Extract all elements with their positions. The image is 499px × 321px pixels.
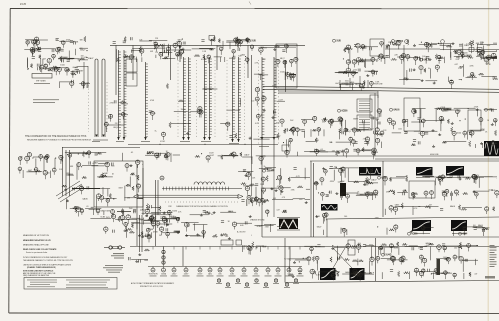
wire tuner-in-w15 xyxy=(68,51,70,61)
wire agc-w10 xyxy=(450,44,452,58)
tube callout V8 6AU6 xyxy=(442,108,453,111)
tube V30 heater string V8 xyxy=(265,247,272,277)
ground vert-sync-G9 xyxy=(363,183,366,185)
capacitor tuner-low-C9 xyxy=(76,69,79,71)
tube callout V7 6AU6 xyxy=(390,108,401,111)
wire crt-lead-w3 xyxy=(480,52,482,60)
resistor vert-sync-R31 xyxy=(364,180,369,182)
resistor tuner-in-R31 xyxy=(80,58,85,60)
ground vert-osc-G4 xyxy=(292,275,295,277)
ground sound-if-G35 xyxy=(451,122,454,124)
wire bus drop 6 xyxy=(115,45,117,95)
wire agc-w8 xyxy=(440,45,451,47)
capacitor vid-if-tail-C5 xyxy=(273,110,275,113)
svg-text:12AU7: 12AU7 xyxy=(368,127,373,130)
tube vid-det-V3 xyxy=(283,60,287,68)
svg-text:6SN7: 6SN7 xyxy=(353,119,359,121)
tube power-V57 xyxy=(399,257,403,264)
svg-text:.047: .047 xyxy=(454,64,458,66)
tube crt-sync-V9 xyxy=(262,188,266,194)
wire pict-tube-w1 xyxy=(269,224,271,232)
tube hv-rect-V10 xyxy=(34,168,38,175)
tube crt-sync-V7 xyxy=(251,198,255,206)
tube V42 dial lamp xyxy=(235,279,241,284)
tube crt-lead-V5 xyxy=(457,50,461,59)
component horiz osc box xyxy=(94,161,143,207)
wire lv-rect-w0 xyxy=(144,259,148,261)
ground agc2-G3 xyxy=(433,82,436,84)
tube horiz-osc-V31 xyxy=(76,207,81,217)
resistor crt-sync-R12 xyxy=(288,177,290,181)
tube horiz-osc-low-V28 xyxy=(111,214,115,222)
resistor agc-R45 xyxy=(476,55,482,57)
tube tuner-in-V48 xyxy=(31,40,35,47)
wire tuner-in-w22 xyxy=(24,49,34,51)
resistor lv-rect-R2 xyxy=(144,249,149,251)
tube afc-top-V9 xyxy=(155,153,159,160)
wire video top right drop xyxy=(377,91,379,98)
ground sync-row-G22 xyxy=(213,211,216,213)
svg-text:6SN7: 6SN7 xyxy=(119,188,123,190)
node tuner-in-J13 junction xyxy=(28,68,29,69)
svg-text:470K: 470K xyxy=(153,232,158,234)
tube V32 heater string 6T8 xyxy=(286,247,293,277)
wire drop to tube row xyxy=(182,247,184,267)
wire tuner drop a xyxy=(83,62,85,88)
tube V20 heater string TELEVISION xyxy=(148,247,157,277)
tube callout V2 5U8 xyxy=(333,39,342,42)
component brightness ticks xyxy=(359,117,370,127)
svg-text:6AU6: 6AU6 xyxy=(83,198,89,201)
resistor horiz-osc-R39 xyxy=(137,175,139,180)
wire horiz-osc-w9 xyxy=(98,163,108,165)
tube vert-osc-V5 xyxy=(370,257,374,266)
wire agc2-w5 xyxy=(460,79,463,81)
tube horiz-osc-low-V14 xyxy=(150,216,154,222)
capacitor sound-if-C39 xyxy=(469,133,472,135)
tube focus-V4 xyxy=(247,246,251,255)
tube crt-sync-V23 xyxy=(277,175,281,185)
tube agc-V9 xyxy=(397,40,401,49)
resistor vert-sync-R17 xyxy=(354,181,359,183)
wire video-amp-w21 xyxy=(363,121,365,131)
svg-text:100: 100 xyxy=(251,101,254,103)
wire vert-sync-w13 xyxy=(341,193,343,200)
tube rf-amp-V18 xyxy=(232,50,235,58)
resistor horiz-osc-low-R29 xyxy=(127,228,133,230)
resistor rf-amp-R39 xyxy=(218,39,220,43)
waveform photo W6 video signal xyxy=(321,204,338,211)
svg-text:100: 100 xyxy=(454,247,457,249)
tube hv-rect-V4 xyxy=(46,155,50,163)
node rf-amp-J52 junction xyxy=(182,39,183,40)
resistor crt-sync-R25 xyxy=(266,175,268,181)
wire power-w8 xyxy=(409,245,418,247)
wire sync-sep-w14 xyxy=(365,59,367,68)
wire sync section top xyxy=(310,160,499,162)
ground sync-row-G2 xyxy=(220,234,223,236)
wire horiz-afc-w10 xyxy=(412,206,414,215)
tube crt-lead-V1 xyxy=(481,50,485,57)
resistor video-amp-R35 xyxy=(315,138,317,143)
tube power-V52 xyxy=(419,255,423,263)
resistor horiz-afc-R29 xyxy=(406,177,408,182)
tube V31 heater string 6S4 xyxy=(275,247,282,277)
capacitor tuner-in-C4 xyxy=(37,64,39,67)
capacitor horiz-osc-C45 xyxy=(75,206,78,208)
resistor vert-osc-R20 xyxy=(359,260,364,262)
wire crt-sync-w11 xyxy=(280,187,291,189)
svg-text:TELEVISION: TELEVISION xyxy=(148,274,157,276)
wire sound-if-w24 xyxy=(435,109,437,122)
wire vert-osc-w10 xyxy=(317,261,319,271)
wire tuner-in-w20 xyxy=(86,57,88,59)
capacitor tuner-in-C46 xyxy=(75,67,78,69)
wire horiz-osc-w2 xyxy=(92,209,94,215)
waveform photo W3 horiz osc xyxy=(446,166,464,176)
ground sync-row-G29 xyxy=(185,234,188,236)
capacitor if-scatter-C8 xyxy=(149,111,152,113)
tube agc-V41 xyxy=(380,42,384,48)
wire power-w3 xyxy=(431,272,447,274)
node vert-sync-J6 junction xyxy=(336,167,337,168)
tube mixer-osc-V5 xyxy=(155,44,159,51)
tube crt-lead-V4 xyxy=(460,52,464,59)
resistor hv-rect-R15 xyxy=(36,170,41,172)
resistor power-R2 xyxy=(397,242,399,246)
wire vid-det-w8 xyxy=(284,72,286,80)
tube horiz-afc-V9 xyxy=(474,176,478,184)
tube rf-amp-V2 xyxy=(236,40,240,47)
capacitor sound-if-C58 xyxy=(418,141,420,144)
svg-text:.01: .01 xyxy=(443,259,446,261)
node mixer-osc-J3 junction xyxy=(174,51,175,52)
ground crt-sync-G13 xyxy=(280,190,283,192)
wire rf-amp-w5 xyxy=(224,57,226,62)
tube horiz-osc-V28 xyxy=(136,160,140,168)
resistor agc-R33 xyxy=(439,57,444,59)
svg-text:VHF TUNER: VHF TUNER xyxy=(36,81,46,83)
wire power-w0 xyxy=(387,259,408,261)
wire sound-if-w4 xyxy=(445,141,467,143)
tube pict-tube-V2 xyxy=(266,210,269,217)
component brightness control box xyxy=(357,115,372,130)
label waveform W4 caption xyxy=(414,232,430,235)
tube mixer-osc-V15 xyxy=(173,43,177,51)
wire horiz box divider xyxy=(382,161,384,217)
tube power-V27 xyxy=(391,257,396,266)
wire horiz-osc-w1 xyxy=(122,153,124,161)
component video det box xyxy=(276,44,297,88)
tube V48 dial lamp xyxy=(293,279,299,284)
wire agc2-w0 xyxy=(399,79,420,81)
wire horiz-afc-w18 xyxy=(418,206,438,208)
svg-text:5U4G: 5U4G xyxy=(386,254,392,257)
tube vert-osc-V43 xyxy=(310,247,314,254)
coil L6a 4th picture IF xyxy=(231,57,235,142)
wire power-w22 xyxy=(430,246,432,260)
wire crt-sync-w8 xyxy=(280,168,282,184)
resistor vid-det-R5 xyxy=(274,45,279,47)
wire sync-row-w8 xyxy=(131,222,154,224)
wire horiz-osc-low-w3 xyxy=(165,218,167,227)
tube video-amp-V3 xyxy=(344,128,348,136)
wire vid-if-tail-w0 xyxy=(277,100,285,102)
ground sync-row-G36 xyxy=(145,214,148,216)
tube horiz-osc-low-V10 xyxy=(126,215,131,224)
resistor power-R54 xyxy=(381,244,387,246)
shield dashed L1 right xyxy=(106,82,108,132)
svg-text:6SN7: 6SN7 xyxy=(104,173,108,175)
tube power-V32 xyxy=(422,269,425,276)
resistor sync-sep-R24 xyxy=(360,60,365,62)
label waveform W5 caption xyxy=(452,232,466,235)
resistor vert-osc-R10 xyxy=(332,270,338,272)
tube V29 heater string 5V4G xyxy=(253,247,260,277)
tube sound-if-V19 xyxy=(463,131,467,138)
wire sound-if-w25 xyxy=(475,144,477,148)
ground sync-row-G35 xyxy=(200,214,203,216)
capacitor video-amp-C26 xyxy=(372,116,374,119)
wire rf-amp-w14 xyxy=(222,41,224,49)
tube rf-amp-V32 xyxy=(234,38,238,46)
wire agc-right-w2 xyxy=(448,77,450,82)
capacitor vert-osc-C16 xyxy=(363,245,366,247)
capacitor video-amp-C21 xyxy=(286,128,288,131)
resistor tuner-in-R23 xyxy=(52,66,58,68)
tube sound-if-V50 xyxy=(479,118,483,126)
ground sound-if-G10 xyxy=(476,108,479,110)
tube horiz-out-V13 xyxy=(421,226,425,234)
wire agc-w23 xyxy=(433,43,453,45)
wire horiz-afc-w7 xyxy=(478,177,480,188)
resistor crt-sync-R24 xyxy=(255,196,257,201)
tube sound-if-V16 xyxy=(380,131,384,137)
wire sync-sep-w4 xyxy=(340,84,342,91)
tube video-amp-V27 xyxy=(285,150,289,157)
wire tuner-in-w18 xyxy=(68,58,79,60)
tube vert-sync-V35 xyxy=(374,190,378,198)
wire tuner-low-w3 xyxy=(79,83,90,85)
tube vert-sync-V38 xyxy=(366,193,370,199)
wire crt-sync-w9 xyxy=(259,167,272,169)
ground agc2-G12 xyxy=(413,68,416,70)
wire vert box left xyxy=(284,238,286,283)
svg-text:6U8: 6U8 xyxy=(263,246,266,248)
wire tuner box left xyxy=(136,165,138,246)
tube rf-amp-V23 xyxy=(129,55,133,63)
node hv-rect-J6 junction xyxy=(21,156,22,157)
wire high line rail 2 xyxy=(263,89,499,92)
wire vid-det-w1 xyxy=(287,74,296,76)
capacitor tuner-in-C10 xyxy=(33,49,35,52)
wire agc-w11 xyxy=(384,57,386,64)
resistor tuner-in-R12 xyxy=(60,56,62,62)
wire b-boost-w4 xyxy=(223,154,238,156)
svg-text:10DE7: 10DE7 xyxy=(184,274,189,276)
wire if-scatter-w7 xyxy=(226,109,240,111)
tube horiz-osc-low-V7 xyxy=(159,227,163,235)
wire horiz-osc-w27 xyxy=(137,198,143,200)
tube horiz-osc-low-V13 xyxy=(176,217,179,223)
capacitor video-amp-C17 xyxy=(374,131,376,134)
wire horiz-out-w4 xyxy=(386,228,388,235)
wire horiz-osc-w3 xyxy=(141,163,144,165)
resistor hv-rect-R13 xyxy=(61,156,63,162)
label waveform W2 caption xyxy=(416,176,430,179)
resistor horiz-osc-R21 xyxy=(132,186,134,191)
capacitor vert-osc-C8 xyxy=(338,257,340,260)
resistor power-R20 xyxy=(402,243,407,245)
ground sync-row-G1 xyxy=(166,223,169,225)
capacitor tuner-low-C7 xyxy=(71,72,74,74)
wire tuner-low-w5 xyxy=(59,81,72,83)
svg-text:6CB6: 6CB6 xyxy=(172,211,177,213)
wire agc-w13 xyxy=(425,56,427,63)
node junction agc 3 xyxy=(244,144,245,145)
resistor vert-osc-R17 xyxy=(344,258,350,260)
wire horiz-afc-w3 xyxy=(434,178,436,185)
wire video-amp-w15 xyxy=(361,149,375,151)
tube hv-rect-V7 xyxy=(59,155,63,164)
wire vert-sync-w12 xyxy=(342,192,358,194)
tube horiz-afc-V1 xyxy=(485,207,489,214)
component peaking coil box 2 xyxy=(477,48,482,52)
svg-text:6CB6: 6CB6 xyxy=(138,219,142,221)
ground if-scatter-G16 xyxy=(249,137,252,139)
resistor horiz-osc-low-R16 xyxy=(124,230,128,232)
wire sync-sep-w1 xyxy=(359,46,378,48)
switch detent dotted row xyxy=(165,201,240,203)
waveform photo W2 horiz afc xyxy=(416,167,433,176)
svg-text:1B3GT: 1B3GT xyxy=(198,274,203,276)
capacitor lv-rect-C4 xyxy=(128,257,130,260)
wire horiz-afc-w14 xyxy=(496,178,498,180)
wire vert-osc-w17 xyxy=(336,246,338,261)
svg-text:.01: .01 xyxy=(86,206,89,208)
wire noise-gate-w3 xyxy=(246,199,248,206)
resistor sync-sep-R5 xyxy=(344,47,349,49)
wire rf-amp-w0 xyxy=(132,48,154,50)
wire sync-row-w5 xyxy=(193,224,208,226)
tube V33 heater string 3BC5 xyxy=(297,247,304,277)
wire horiz-osc-w17 xyxy=(89,208,101,210)
tube sync-row-V33 xyxy=(167,210,171,218)
shield dashed L5 mid xyxy=(196,60,198,138)
tube horiz-osc-V38 xyxy=(100,196,104,203)
wire sync-sep-w0 xyxy=(349,49,351,64)
ground sound-if-G5 xyxy=(432,145,435,147)
wire flyback cage mid xyxy=(65,150,67,196)
wire horiz-osc-w20 xyxy=(70,208,83,210)
resistor noise-gate-R14 xyxy=(250,199,252,203)
wire agc vert below xyxy=(273,160,275,217)
wire sound-if-w5 xyxy=(392,132,401,134)
wire horiz-afc-w11 xyxy=(398,206,420,208)
wire lv-rect-w1 xyxy=(131,259,148,261)
tube noise-gate-V9 xyxy=(247,195,251,204)
tube power-V36 xyxy=(401,256,405,263)
tube video-amp-V13 xyxy=(372,151,376,159)
tube tuner-in-V17 xyxy=(40,65,44,73)
node junction agc 1 xyxy=(159,144,160,145)
wire tuner-low-w4 xyxy=(59,82,61,88)
capacitor video-amp-C2 xyxy=(353,149,356,151)
resistor sync-row-R30 xyxy=(212,235,217,237)
tube video-amp-V46 xyxy=(349,137,353,145)
wire power-w13 xyxy=(445,245,459,247)
node sound-if-J37 junction xyxy=(468,108,469,109)
resistor b-boost-R7 xyxy=(240,152,242,156)
wire sound-if-w14 xyxy=(380,110,382,117)
wire tuner-in-w9 xyxy=(86,50,88,52)
capacitor horiz-afc-C14 xyxy=(403,192,405,195)
tube sound-if-V61 xyxy=(439,116,443,123)
capacitor tuner-in-C27 xyxy=(53,68,55,71)
tube V40 dial lamp xyxy=(216,279,222,284)
resistor rf-amp-R15 xyxy=(163,57,168,59)
tube sync-sep-V15 xyxy=(371,70,375,77)
ground lv-rect-G1 xyxy=(135,260,138,262)
capacitor sync-sep-C34 xyxy=(375,72,377,75)
tube horiz-osc-V40 xyxy=(111,210,115,218)
wire vert-osc-w4 xyxy=(355,273,375,275)
tube sound-if-V17 xyxy=(388,118,392,125)
wire agc-keyed-w0 xyxy=(118,114,128,116)
svg-text:4.5 MC: 4.5 MC xyxy=(160,141,166,143)
svg-text:1500: 1500 xyxy=(398,128,402,130)
resistor horiz-out-R11 xyxy=(484,228,489,230)
capacitor video-amp-C15 xyxy=(315,149,317,152)
svg-text:B+: B+ xyxy=(448,175,450,177)
wire agc-w19 xyxy=(493,42,497,44)
svg-text:A PHOTOFACT STANDARD NOTATION: A PHOTOFACT STANDARD NOTATION SCHEMATIC xyxy=(131,282,175,285)
wire horiz-out-w2 xyxy=(453,229,455,236)
ground sync-row-G3 xyxy=(138,234,141,236)
capacitor agc-C30 xyxy=(386,56,389,58)
wire AGC bus top xyxy=(110,44,305,46)
resistor video-amp-R6 xyxy=(289,129,293,131)
wire horiz-afc-w16 xyxy=(472,176,493,178)
node rail junction 2 xyxy=(359,87,360,88)
capacitor horiz-osc-low-C25 xyxy=(166,228,168,231)
svg-text:5U8: 5U8 xyxy=(337,41,342,43)
resistor agc-R2 xyxy=(435,54,437,60)
tube horiz-osc-V24 xyxy=(106,199,110,207)
ground vert-sync-G30 xyxy=(335,192,338,194)
node horiz-osc-J14 junction xyxy=(113,198,114,199)
tube mixer-osc-V13 xyxy=(176,53,179,60)
wire filament riser xyxy=(139,215,141,252)
tube noise-gate-V8 xyxy=(257,199,261,207)
wire sync-sep-w2 xyxy=(335,71,358,73)
capacitor tuner-in-C33 xyxy=(38,67,40,70)
ground sync-amp-G8 xyxy=(177,231,180,233)
tube agc-V43 xyxy=(484,58,488,65)
node horiz-afc-J35 junction xyxy=(458,194,459,195)
resistor video-amp-R11 xyxy=(357,130,361,132)
tube power-V19 xyxy=(444,271,448,279)
capacitor horiz-afc-C12 xyxy=(458,175,460,178)
resistor video-amp-R50 xyxy=(362,147,364,151)
coil video IF output primary xyxy=(261,57,265,140)
wire sound-if-w12 xyxy=(495,143,498,145)
node sound-if-J12 junction xyxy=(459,120,460,121)
wire power-w12 xyxy=(475,259,477,265)
svg-text:6U8: 6U8 xyxy=(487,45,491,47)
resistor agc-R53 xyxy=(391,58,397,60)
tube afc-top-V1 xyxy=(166,153,170,161)
